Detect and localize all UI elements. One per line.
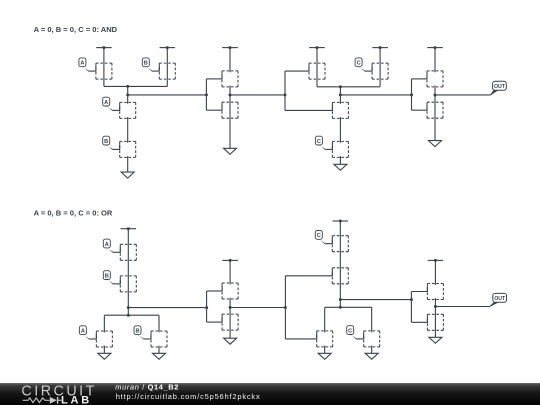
- svg-text:LAB: LAB: [61, 394, 92, 405]
- wire nor2 nmos tie (OR): [325, 306, 372, 308]
- svg-text:A = 0, B = 0, C = 0: OR: A = 0, B = 0, C = 0: OR: [34, 208, 113, 217]
- wire vdd to PMOS n2: [316, 48, 318, 64]
- wire pmos C to pmos n2 (OR): [339, 252, 341, 268]
- svg-text:http://circuitlab.com/c5p56hf2: http://circuitlab.com/c5p56hf2pkckx: [116, 392, 261, 401]
- wire nor1 output vertical: [127, 292, 129, 315]
- ground (AND inverter1): [224, 118, 237, 154]
- wire node n2 bus: [230, 94, 285, 96]
- pmos (OR inverter2, off): [427, 283, 443, 300]
- wire inverter2 gate bracket (OR): [410, 292, 412, 323]
- wire pmos C drain: [379, 79, 381, 87]
- CircuitLab logo resistor zigzag: [23, 398, 50, 403]
- wire inverter2 nmos gate lead (OR): [411, 321, 427, 323]
- junction node n2: [229, 94, 232, 97]
- flag OUT (OR): [490, 293, 507, 307]
- wire nor2 gate bracket (OR): [284, 276, 286, 339]
- junction node n2 (OR): [229, 306, 232, 309]
- wire inverter2 pmos drain (OR): [434, 300, 436, 307]
- wire nmos B drain (OR): [158, 315, 160, 331]
- wire vdd to pmos C (OR): [339, 221, 341, 236]
- junction node n3 (OR): [339, 298, 342, 301]
- pmos (AND inverter1, off): [222, 71, 238, 88]
- wire pmos n2 gate lead: [285, 70, 309, 72]
- ground (AND nand1): [121, 157, 134, 178]
- vdd rail (AND stage3, PMOS n2): [309, 46, 325, 49]
- junction node n1: [126, 93, 129, 96]
- wire vdd to inverter2 PMOS: [434, 48, 436, 71]
- svg-text:OUT: OUT: [494, 84, 506, 90]
- wire inverter2 nmos gate lead: [412, 109, 428, 111]
- flag C (pmos C gate): [355, 58, 372, 72]
- wire inverter2 output to nmos: [434, 95, 436, 102]
- wire inverter2 gate bracket: [411, 79, 413, 110]
- pmos C (AND nand2, on): [372, 63, 388, 79]
- wire vdd to PMOS A: [103, 48, 105, 64]
- wire node n3 bus (OR): [340, 299, 411, 301]
- wire nand2 pmos tie: [317, 86, 380, 88]
- vdd rail (OR inverter1): [222, 259, 238, 262]
- svg-text:C: C: [348, 328, 352, 334]
- wire inverter1 pmos drain: [229, 87, 231, 95]
- nmos (AND inverter1, on): [222, 102, 238, 118]
- nmos B (OR nor1, off): [151, 331, 167, 348]
- flag C (OR nmos C gate): [347, 326, 364, 340]
- wire nor2 output vertical (OR): [339, 284, 341, 308]
- nmos C (AND nand2, off): [332, 141, 348, 158]
- vdd rail (AND inverter 2): [427, 46, 443, 49]
- wire OUT (OR): [435, 306, 489, 308]
- svg-text:B: B: [144, 61, 148, 67]
- pmos (AND inverter2, off): [427, 71, 443, 88]
- svg-text:B: B: [105, 273, 109, 279]
- junction nor2 input (OR): [284, 306, 287, 309]
- svg-text:B: B: [135, 329, 139, 335]
- wire inverter1 nmos gate lead: [206, 109, 222, 111]
- flag A (pmos A gate): [79, 58, 96, 72]
- svg-text:C: C: [317, 139, 321, 145]
- wire nmos n2 to nmos C: [339, 118, 341, 141]
- vdd rail (OR stage3): [333, 220, 349, 223]
- junction node n1 (OR): [127, 306, 130, 309]
- wire inverter2 pmos gate lead (OR): [411, 291, 427, 293]
- wire inverter1 nmos source: [229, 117, 231, 120]
- wire inverter1 pmos gate lead: [206, 78, 222, 80]
- nmos (OR inverter2, on): [427, 314, 443, 330]
- wire inverter1 nmos gate lead (OR): [207, 321, 223, 323]
- wire inverter1 pmos drain (OR): [229, 299, 231, 308]
- pmos B (OR nor1, on): [120, 276, 136, 292]
- junction nor2 nmos tie (OR): [339, 306, 342, 309]
- svg-text:A: A: [81, 329, 85, 335]
- svg-text:OUT: OUT: [494, 296, 506, 302]
- wire nmos C drain (OR): [371, 307, 373, 331]
- pmos A (AND nand1, on): [96, 63, 112, 79]
- flag OUT (AND): [490, 81, 506, 95]
- nmos n2 (AND nand2, off): [332, 102, 348, 119]
- wire pmos A drain: [103, 79, 105, 86]
- ground (AND inverter2): [429, 118, 442, 146]
- wire vdd to inverter1 pmos (OR): [229, 260, 231, 283]
- junction inverter2 input (OR): [410, 298, 413, 301]
- flag A (OR pmos A gate): [103, 239, 120, 253]
- nmos A (AND nand1, off): [120, 102, 136, 119]
- wire inverter2 pmos drain: [434, 87, 436, 95]
- nmos A (OR nor1, off): [96, 331, 112, 348]
- wire nmos A to nmos B: [127, 118, 129, 141]
- wire pmos n2 gate lead (OR): [285, 275, 332, 277]
- flag B (OR pmos B gate): [103, 271, 120, 285]
- wire node n1 bus (OR): [128, 307, 206, 309]
- ground (OR nmos C): [365, 347, 378, 359]
- wire node n1 vertical: [127, 86, 129, 102]
- flag A (OR nmos A gate): [79, 326, 96, 340]
- wire nmos A drain (OR): [103, 315, 105, 331]
- svg-text:C: C: [357, 61, 361, 67]
- wire nmos n2 drain (OR): [324, 307, 326, 331]
- junction inverter1 input: [205, 93, 208, 96]
- nmos (AND inverter2, on): [427, 102, 443, 118]
- flag B (pmos B gate): [142, 58, 159, 72]
- svg-text:B: B: [104, 139, 108, 145]
- wire pmos n2 drain: [316, 79, 318, 87]
- vdd rail (AND inverter 1): [222, 46, 238, 49]
- nmos C (OR nor2, off): [364, 331, 380, 348]
- vdd rail (AND stage1, PMOS A): [96, 46, 112, 49]
- wire node n3 bus: [340, 94, 411, 96]
- wire nor1 nmos tie: [104, 314, 159, 316]
- wire vdd to inverter1 PMOS: [229, 48, 231, 71]
- pmos A (OR nor1, on): [120, 244, 136, 260]
- ground (OR nmos A): [98, 347, 111, 359]
- ground (OR inverter2): [429, 330, 442, 343]
- flag C (nmos C gate): [315, 136, 332, 150]
- footer bar: [0, 383, 540, 405]
- vdd rail (AND stage1, PMOS B): [160, 46, 176, 49]
- wire pmos B drain: [166, 79, 168, 86]
- wire inverter1 gate bracket (OR): [206, 291, 208, 322]
- wire inverter2 output to nmos (OR): [434, 307, 436, 315]
- wire vdd to PMOS C: [379, 48, 381, 64]
- flag B (nmos B gate): [103, 136, 120, 150]
- wire nmos n2 gate lead (OR): [285, 338, 316, 340]
- vdd rail (OR inverter2): [428, 259, 444, 262]
- nmos B (AND nand1, off): [120, 141, 136, 158]
- ground (OR inverter1): [224, 330, 237, 344]
- junction nand1 tie: [126, 85, 129, 88]
- junction inverter1 input (OR): [205, 306, 208, 309]
- wire OUT (AND): [435, 94, 490, 96]
- junction node n3: [339, 93, 342, 96]
- svg-text:A: A: [105, 242, 109, 248]
- flag A (nmos A gate): [103, 97, 120, 111]
- vdd rail (AND stage3, PMOS C): [372, 46, 388, 49]
- wire node n2 bus (OR): [230, 307, 285, 309]
- ground (AND nand2): [334, 157, 347, 170]
- wire inverter2 pmos gate lead: [412, 78, 428, 80]
- wire node n3 vertical: [339, 87, 341, 103]
- wire inverter1 output to nmos: [229, 95, 231, 102]
- wire nand1 pmos tie: [104, 85, 167, 87]
- pmos (OR inverter1, off): [222, 283, 238, 300]
- junction inverter2 input: [410, 93, 413, 96]
- svg-text:muran / Q14_B2: muran / Q14_B2: [115, 383, 179, 392]
- wire inverter1 pmos gate lead (OR): [207, 290, 223, 292]
- wire inverter1 gate bracket: [205, 79, 207, 110]
- CircuitLab logo diode: [50, 397, 57, 404]
- wire vdd to PMOS B: [166, 48, 168, 64]
- pmos n2 (AND nand2, on): [309, 63, 325, 79]
- nmos (OR inverter1, on): [222, 314, 238, 330]
- junction node OUT (OR): [434, 305, 437, 308]
- wire inverter1 output to nmos (OR): [229, 308, 231, 315]
- svg-text:A: A: [104, 100, 108, 106]
- pmos n2 (OR nor2, on): [332, 268, 348, 284]
- ground (OR nmos n2): [318, 347, 331, 359]
- flag B (OR nmos B gate): [134, 326, 151, 340]
- wire vdd to inverter2 pmos (OR): [434, 260, 436, 283]
- ground (OR nmos B): [153, 347, 166, 359]
- pmos B (AND nand1, on): [159, 63, 175, 79]
- pmos C (OR nor2, on): [332, 236, 348, 252]
- junction nand2 input: [284, 93, 287, 96]
- wire vdd to pmos A (OR): [127, 229, 129, 245]
- svg-text:A: A: [80, 61, 84, 67]
- wire nmos n2 gate lead: [285, 109, 332, 111]
- svg-text:C: C: [317, 233, 321, 239]
- junction nor1 nmos tie: [127, 314, 130, 317]
- flag C (OR pmos C gate): [315, 231, 332, 245]
- wire nand2 gate bracket: [284, 71, 286, 110]
- wire pmos A to pmos B (OR): [127, 260, 129, 276]
- junction nand2 tie: [339, 85, 342, 88]
- vdd rail (OR stage1): [121, 227, 137, 230]
- svg-text:A = 0, B = 0, C = 0: AND: A = 0, B = 0, C = 0: AND: [34, 25, 118, 34]
- wire node n1 bus: [128, 94, 207, 96]
- junction node OUT (AND): [434, 94, 437, 97]
- nmos n2 (OR nor2, off): [317, 331, 333, 348]
